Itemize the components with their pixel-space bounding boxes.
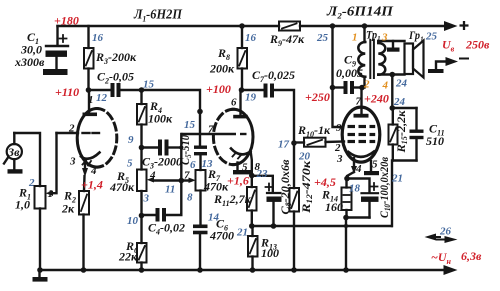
svg-text:23: 23 bbox=[256, 168, 269, 180]
svg-text:15: 15 bbox=[143, 79, 155, 91]
svg-text:+240: +240 bbox=[364, 92, 389, 106]
capacitor C9 bbox=[333, 81, 363, 94]
resistor R8 bbox=[238, 26, 248, 90]
svg-text:24: 24 bbox=[393, 96, 406, 108]
potentiometer R7 bbox=[189, 170, 206, 225]
input jack Zv bbox=[4, 133, 40, 186]
svg-text:3: 3 bbox=[381, 32, 388, 44]
svg-text:1: 1 bbox=[48, 188, 54, 200]
node 15 junction bbox=[139, 87, 145, 93]
svg-text:4: 4 bbox=[90, 165, 97, 177]
speaker Gr1 bbox=[405, 41, 424, 78]
node 10 junction bbox=[139, 213, 145, 219]
svg-text:21: 21 bbox=[236, 227, 248, 239]
svg-text:2: 2 bbox=[363, 79, 370, 91]
svg-text:250в: 250в bbox=[465, 38, 490, 52]
resistor R15 bbox=[389, 108, 417, 161]
vertical tie wire grid bus bbox=[180, 134, 182, 215]
svg-text:24: 24 bbox=[395, 78, 408, 90]
svg-text:3: 3 bbox=[336, 153, 343, 165]
svg-text:21: 21 bbox=[391, 173, 403, 185]
svg-text:6: 6 bbox=[231, 97, 237, 109]
svg-text:4700: 4700 bbox=[209, 229, 234, 243]
node R2 on rail bbox=[81, 267, 87, 273]
node cathode junction bbox=[344, 176, 350, 182]
svg-text:100к: 100к bbox=[148, 112, 173, 126]
node anode V1b junction bbox=[239, 87, 245, 93]
svg-text:12: 12 bbox=[96, 92, 108, 104]
svg-text:20: 20 bbox=[298, 151, 311, 163]
svg-text:R12-470к: R12-470к bbox=[299, 160, 314, 214]
node 9 junction bbox=[139, 145, 145, 151]
svg-text:2к: 2к bbox=[61, 202, 75, 216]
svg-text:С3-2000: С3-2000 bbox=[142, 155, 182, 171]
node R1 on rail bbox=[37, 267, 43, 273]
pentode L2 envelope bbox=[342, 107, 380, 162]
resistor R12 bbox=[290, 188, 300, 270]
svg-text:R15-2,2к: R15-2,2к bbox=[394, 110, 409, 154]
feedback network wire from speaker bbox=[391, 75, 393, 109]
capacitor C4 bbox=[142, 208, 182, 222]
potentiometer R1 bbox=[35, 133, 57, 270]
svg-text:100: 100 bbox=[261, 246, 279, 260]
wire R14 C10 bottom bbox=[346, 216, 370, 218]
wire feedback down to cathode bus bbox=[391, 161, 393, 227]
pin 5 chassis stub of V1b bbox=[233, 163, 251, 175]
node wiper bus junction bbox=[179, 178, 185, 184]
node R8 on rail bbox=[239, 23, 245, 29]
svg-text:510: 510 bbox=[426, 134, 444, 148]
svg-text:15: 15 bbox=[184, 119, 196, 131]
svg-text:10: 10 bbox=[127, 215, 139, 227]
capacitor C3 bbox=[142, 140, 182, 156]
node C3 tie bbox=[179, 145, 183, 149]
node dot on treble column bbox=[197, 109, 203, 115]
svg-text:R112,7к: R112,7к bbox=[213, 192, 252, 208]
node C9 tap bbox=[330, 85, 336, 91]
svg-text:7: 7 bbox=[356, 96, 362, 108]
svg-text:7: 7 bbox=[208, 124, 214, 136]
svg-text:1: 1 bbox=[88, 94, 94, 106]
svg-text:3: 3 bbox=[69, 156, 76, 168]
svg-text:26: 26 bbox=[439, 226, 452, 238]
svg-text:2: 2 bbox=[68, 123, 75, 135]
svg-text:R10-1к: R10-1к bbox=[297, 123, 331, 139]
wire node15 to treble column bbox=[142, 90, 201, 146]
triode V1b envelope bbox=[213, 109, 253, 164]
svg-text:25: 25 bbox=[316, 32, 329, 44]
node R11 tie bbox=[249, 223, 255, 229]
node on rail bbox=[343, 267, 349, 273]
svg-text:5: 5 bbox=[127, 158, 133, 170]
svg-text:+110: +110 bbox=[55, 85, 79, 99]
node R14/C10 bottom tie bbox=[343, 215, 349, 221]
wire secondary top + chassis tap bbox=[378, 41, 404, 52]
wire top supply rail right segment bbox=[300, 25, 450, 27]
svg-text:16: 16 bbox=[92, 32, 104, 44]
node R13 on rail bbox=[250, 267, 256, 273]
svg-text:9: 9 bbox=[336, 122, 342, 134]
svg-text:+1,6: +1,6 bbox=[227, 174, 249, 188]
svg-text:4: 4 bbox=[355, 163, 362, 175]
svg-text:С7-0,025: С7-0,025 bbox=[252, 68, 295, 84]
capacitor C1 bbox=[43, 26, 68, 75]
svg-text:Зв: Зв bbox=[7, 145, 20, 159]
resistor R11 bbox=[247, 176, 257, 227]
svg-text:17: 17 bbox=[278, 139, 290, 151]
transformer Tr1 bbox=[358, 26, 385, 88]
svg-text:16: 16 bbox=[245, 32, 257, 44]
triode V1a anode bbox=[83, 90, 98, 116]
wire cathode return bus node 21 bbox=[252, 225, 392, 227]
svg-text:22к: 22к bbox=[118, 250, 138, 264]
svg-text:Л2-6П14П: Л2-6П14П bbox=[326, 4, 394, 21]
svg-text:1: 1 bbox=[352, 32, 358, 44]
pentode anode bbox=[354, 88, 369, 118]
svg-text:3: 3 bbox=[143, 193, 150, 205]
svg-text:R3-200к: R3-200к bbox=[95, 50, 137, 66]
svg-text:18: 18 bbox=[349, 183, 361, 195]
svg-text:19: 19 bbox=[245, 92, 257, 104]
node junction R3/C2/anode bbox=[86, 87, 92, 93]
svg-text:160: 160 bbox=[325, 200, 343, 214]
svg-text:С4-0,02: С4-0,02 bbox=[148, 221, 185, 237]
svg-text:7: 7 bbox=[184, 170, 190, 182]
node R12 on rail bbox=[291, 267, 297, 273]
pentode cathode bbox=[347, 152, 374, 179]
svg-text:470к: 470к bbox=[109, 180, 135, 194]
svg-text:25: 25 bbox=[425, 31, 438, 43]
svg-text:4: 4 bbox=[149, 170, 156, 182]
resistor R9 bbox=[279, 22, 300, 31]
minus output terminal bbox=[428, 57, 468, 73]
svg-text:8: 8 bbox=[187, 192, 193, 204]
triode V1b cathode bbox=[231, 149, 252, 176]
svg-text:9: 9 bbox=[128, 134, 134, 146]
svg-text:200к: 200к bbox=[209, 62, 235, 76]
capacitor C6 bbox=[193, 225, 208, 271]
node anode pentode junction bbox=[359, 85, 365, 91]
svg-text:+100: +100 bbox=[206, 82, 231, 96]
wire grid of V1b bbox=[181, 133, 246, 135]
pentode grids dashed rows bbox=[348, 127, 376, 142]
wire cathode node down to rail bbox=[345, 218, 347, 271]
svg-text:6,3в: 6,3в bbox=[461, 249, 482, 263]
triode V1a cathode bbox=[81, 153, 100, 192]
wire bottom common rail bbox=[40, 269, 450, 272]
svg-text:х300в: х300в bbox=[14, 55, 45, 69]
svg-text:+1,4: +1,4 bbox=[81, 178, 103, 192]
resistor R3 bbox=[84, 26, 94, 90]
node bottom rail arrow bbox=[444, 265, 458, 275]
node 17 junction bbox=[291, 140, 297, 146]
triode V1b anode bbox=[233, 90, 248, 118]
svg-text:5: 5 bbox=[242, 162, 248, 174]
svg-text:11: 11 bbox=[165, 184, 175, 196]
capacitor C2 bbox=[89, 83, 142, 97]
potentiometer R5 bbox=[137, 148, 154, 216]
capacitor C5 bbox=[194, 146, 207, 171]
svg-text:+250: +250 bbox=[305, 90, 330, 104]
filament arrows bbox=[425, 234, 458, 244]
triode V1a envelope (half of L1) bbox=[77, 109, 117, 168]
resistor R14 bbox=[342, 179, 352, 218]
ground at bottom-left rail end bbox=[33, 270, 48, 282]
resistor R13 bbox=[248, 226, 258, 270]
svg-text:+180: +180 bbox=[54, 14, 79, 28]
svg-text:4: 4 bbox=[382, 80, 389, 92]
svg-text:2: 2 bbox=[28, 177, 35, 189]
node feedback tap bbox=[390, 72, 396, 78]
wire secondary bottom bbox=[378, 73, 404, 75]
node C8 tie bbox=[271, 223, 277, 229]
wire +250 screen feed bbox=[333, 26, 344, 127]
node C6 on rail bbox=[197, 267, 203, 273]
resistor R6 bbox=[137, 216, 147, 271]
pin 5 chassis stub of pentode bbox=[364, 161, 379, 175]
plus sign top right bbox=[460, 21, 469, 30]
node Tr1 on rail bbox=[362, 23, 368, 29]
svg-text:1,0: 1,0 bbox=[15, 198, 30, 212]
node cathode V1b junction 23 bbox=[249, 173, 255, 179]
capacitor C7 bbox=[242, 84, 295, 189]
svg-text:0,005: 0,005 bbox=[336, 66, 363, 80]
svg-text:С2-0,05: С2-0,05 bbox=[97, 70, 134, 86]
wire tone wiper bus bbox=[153, 179, 189, 181]
resistor R4 bbox=[137, 90, 147, 148]
capacitor C10 electrolytic bbox=[347, 179, 379, 218]
wire top supply rail left segment bbox=[58, 25, 280, 27]
triode V1a grid bbox=[57, 132, 100, 134]
svg-text:6: 6 bbox=[190, 159, 196, 171]
capacitor C8 electrolytic bbox=[252, 176, 282, 226]
node feedback top bbox=[390, 105, 396, 111]
svg-text:Л1-6Н2П: Л1-6Н2П bbox=[133, 7, 182, 24]
node screen feed on rail bbox=[330, 23, 336, 29]
node bus crossing bbox=[344, 224, 348, 228]
node R6 on rail bbox=[139, 267, 145, 273]
resistor R2 bbox=[79, 191, 89, 270]
resistor R10 bbox=[294, 138, 344, 147]
node top rail arrow + bbox=[444, 21, 458, 31]
capacitor C11 bbox=[393, 108, 424, 161]
svg-text:R9-47к: R9-47к bbox=[269, 32, 305, 48]
